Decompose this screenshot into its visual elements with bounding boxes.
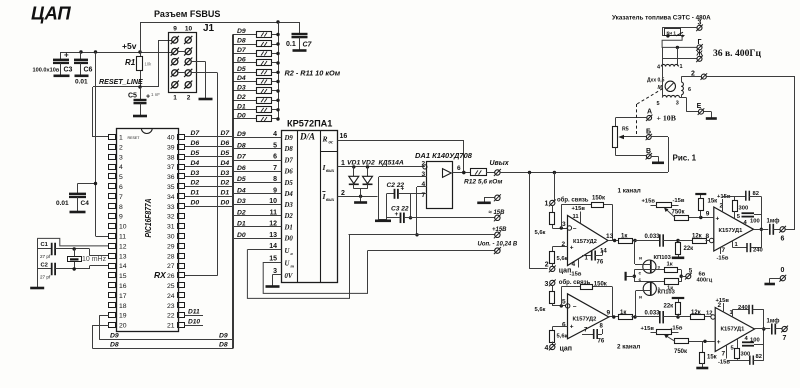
svg-text:−: −	[573, 226, 577, 233]
svg-text:100: 100	[750, 338, 760, 344]
svg-text:+: +	[146, 94, 150, 101]
wire Б to Uвых line	[651, 137, 668, 173]
wire Uref line	[368, 250, 495, 252]
label pin 10	[185, 26, 193, 33]
label КД514А	[379, 160, 404, 167]
svg-text:11: 11	[270, 209, 278, 216]
bus spine	[232, 35, 234, 349]
svg-text:D3: D3	[237, 198, 246, 205]
ch2b output rail	[755, 310, 771, 361]
wire Ж line	[662, 47, 697, 64]
wire net D11 stub	[184, 308, 203, 315]
svg-text:D9: D9	[284, 135, 294, 142]
svg-text:К157УД1: К157УД1	[719, 228, 744, 234]
ground 15к ch1 up	[695, 194, 717, 205]
ch1b cap 82	[746, 191, 762, 201]
svg-text:12: 12	[119, 243, 127, 250]
svg-text:9: 9	[119, 214, 123, 221]
svg-text:29: 29	[167, 243, 175, 250]
PIC pin 20 box	[109, 323, 127, 330]
wire coil2 to terminal2	[681, 76, 701, 78]
resistor 1к ch1	[619, 234, 637, 244]
feedback ch2	[561, 287, 612, 318]
wire J1 row3 to ground	[191, 62, 205, 99]
svg-text:7: 7	[783, 335, 787, 342]
svg-text:D6: D6	[237, 165, 246, 172]
terminal 4 цап	[545, 344, 573, 353]
terminal Uвых	[490, 160, 510, 176]
svg-text:13: 13	[269, 232, 277, 239]
wire А to R5	[616, 118, 647, 127]
svg-text:R1: R1	[125, 58, 136, 67]
svg-text:C7: C7	[303, 42, 313, 49]
svg-text:27 pf: 27 pf	[40, 275, 51, 280]
capacitor C5	[128, 87, 160, 116]
PIC pin 27 box	[167, 263, 185, 270]
svg-text:+: +	[64, 51, 69, 60]
resistor pull-up D5	[233, 66, 280, 76]
svg-text:D1: D1	[191, 190, 200, 197]
svg-text:6: 6	[119, 184, 123, 191]
svg-text:Кн 1: Кн 1	[667, 31, 677, 36]
svg-text:D5: D5	[237, 66, 246, 73]
label RX	[154, 270, 167, 280]
ground terminal 0	[764, 283, 775, 286]
resistor 22к ch1	[676, 239, 694, 257]
wire source join	[627, 270, 637, 282]
svg-text:21: 21	[167, 323, 175, 330]
PIC pin 1 box	[109, 135, 141, 142]
svg-text:400гц: 400гц	[697, 278, 713, 284]
resistor 750к ch2	[674, 339, 689, 356]
ch1b pin7 -15в	[717, 247, 729, 262]
wire coil interconnect	[662, 65, 686, 98]
svg-text:-15в: -15в	[671, 326, 683, 332]
wire RESET to PIC pin 1	[93, 87, 110, 137]
svg-text:1к: 1к	[621, 234, 627, 240]
wire net D10 stub	[184, 318, 203, 325]
label 36 в. 400Гц	[713, 48, 761, 59]
resistor pull-up D2	[233, 94, 280, 104]
capacitor C3	[33, 51, 73, 76]
wire PIC pin12 VSS to ground	[37, 238, 109, 287]
svg-text:26: 26	[167, 273, 175, 280]
svg-text:+: +	[716, 215, 720, 222]
svg-text:R: R	[322, 135, 328, 144]
resistor 5,6к ch1 noninv	[550, 247, 568, 266]
trimmer ch2	[641, 326, 683, 335]
svg-text:D6: D6	[191, 140, 200, 147]
ch2b cap 100	[742, 336, 764, 346]
wire Ua to +15V	[247, 235, 349, 299]
svg-text:39: 39	[167, 144, 175, 151]
terminal 3 gauge	[696, 20, 703, 32]
svg-text:+: +	[395, 211, 399, 218]
wire PIC D5 to bus	[184, 150, 233, 157]
resistor pull-up D9	[233, 28, 280, 38]
svg-text:RX: RX	[154, 270, 167, 280]
svg-text:R5: R5	[622, 127, 629, 133]
ch2b pin7 -15в	[718, 345, 730, 366]
svg-text:7: 7	[722, 247, 726, 254]
svg-text:D2: D2	[191, 180, 200, 187]
svg-text:D1: D1	[237, 221, 246, 228]
svg-text:D5: D5	[237, 176, 246, 183]
diode VD2	[362, 160, 375, 189]
svg-text:D4: D4	[191, 160, 200, 167]
svg-text:+15В: +15В	[492, 227, 507, 233]
svg-text:3: 3	[273, 268, 277, 275]
PIC pin 37 box	[167, 164, 185, 171]
svg-text:1мф: 1мф	[767, 218, 780, 225]
ground C3	[54, 75, 70, 78]
svg-text:10: 10	[119, 224, 127, 231]
J1 pin circle L1	[171, 36, 179, 44]
PIC pin 10 box	[109, 224, 127, 231]
wire C2 rail to pin 14	[90, 266, 110, 270]
svg-text:+15в: +15в	[642, 199, 656, 205]
wire net D8 bottom bus	[93, 325, 234, 348]
PIC pin 13 box	[109, 253, 127, 260]
PIC pin 9 box	[109, 214, 124, 221]
J1 pin circle R1	[184, 36, 192, 44]
svg-text:5,6к: 5,6к	[535, 307, 546, 313]
svg-text:16: 16	[119, 283, 127, 290]
svg-text:4: 4	[572, 261, 576, 268]
svg-text:PIC16F877A: PIC16F877A	[144, 198, 153, 237]
coil primary	[657, 64, 683, 71]
svg-text:0.1: 0.1	[286, 41, 296, 48]
svg-text:D9: D9	[237, 28, 246, 35]
terminal 6	[779, 226, 795, 243]
svg-text:0: 0	[781, 267, 785, 274]
svg-text:1к: 1к	[620, 310, 626, 316]
svg-text:В: В	[646, 148, 651, 155]
svg-text:7: 7	[273, 165, 277, 172]
potentiometer R5	[613, 127, 629, 156]
diode VD1	[347, 160, 360, 189]
DA1 pin2 input	[422, 161, 428, 169]
svg-text:9: 9	[173, 26, 177, 33]
PIC pin 26 box	[167, 273, 185, 281]
PIC pin 8 box	[109, 204, 124, 211]
ch2b cap 82	[750, 354, 764, 365]
svg-text:D1: D1	[284, 224, 293, 231]
svg-text:и: и	[639, 257, 642, 262]
svg-text:+: +	[570, 324, 574, 331]
svg-text:D5: D5	[221, 150, 230, 157]
svg-text:9: 9	[607, 310, 611, 317]
ground В	[652, 162, 664, 165]
capacitor C4	[56, 182, 97, 212]
wire цап feed ch1	[530, 173, 548, 269]
svg-text:J1: J1	[203, 23, 215, 34]
PIC pin 38 box	[167, 154, 185, 161]
ch2 correction cap 76	[582, 324, 605, 345]
ch1 pin11 +15в	[572, 206, 586, 223]
ground J1	[199, 98, 213, 101]
svg-text:2: 2	[545, 261, 549, 268]
svg-text:D8: D8	[219, 341, 228, 348]
svg-text:4: 4	[422, 181, 426, 188]
ch2 pin6	[552, 322, 574, 331]
capacitor C6	[74, 52, 93, 86]
svg-text:8: 8	[706, 233, 710, 240]
feedback ch1	[561, 205, 612, 241]
terminal В	[646, 148, 652, 160]
IC DA КР572ПА1 body	[282, 131, 338, 283]
connector J1 body	[169, 23, 215, 93]
terminal +15В	[492, 227, 507, 238]
terminal А	[646, 109, 652, 122]
DAC pin 14 Ua	[247, 243, 293, 256]
svg-text:D7: D7	[237, 47, 247, 54]
wire DAC pin1 Iout	[338, 160, 425, 169]
wire PIC D7 to bus	[184, 130, 233, 137]
trimmer wiper ch2	[664, 334, 675, 341]
J1 pin circle R4	[184, 69, 192, 77]
wire DAC input D0	[233, 232, 293, 243]
svg-text:240: 240	[753, 248, 763, 254]
PIC pin 33 box	[167, 204, 185, 211]
wire C2 ground stem	[379, 194, 387, 220]
resistor 12к ch2	[678, 310, 711, 320]
op-amp input circle ch1 inv	[567, 226, 577, 233]
svg-text:0V: 0V	[285, 273, 293, 280]
svg-text:C3: C3	[64, 67, 73, 74]
svg-text:1: 1	[119, 135, 123, 142]
wire gauge terminal2 to ch1 output	[707, 77, 796, 230]
wire +5v rail	[61, 50, 172, 53]
op-amp К157УД1 ch2	[715, 308, 754, 352]
capacitor C2 22	[387, 182, 411, 199]
svg-text:76: 76	[598, 339, 605, 345]
PIC pin 11 box	[109, 234, 127, 241]
svg-text:32: 32	[167, 214, 175, 221]
wire DAC input D6	[233, 165, 293, 176]
svg-text:-15в: -15в	[717, 256, 729, 262]
svg-text:4: 4	[273, 131, 277, 138]
svg-text:34: 34	[167, 194, 175, 201]
svg-text:Разъем FSBUS: Разъем FSBUS	[154, 9, 220, 19]
svg-text:0.01: 0.01	[56, 200, 69, 207]
svg-text:10: 10	[269, 198, 277, 205]
svg-text:D6: D6	[221, 140, 230, 147]
svg-text:27 pf: 27 pf	[40, 254, 51, 259]
svg-text:D/A: D/A	[299, 132, 315, 142]
svg-text:20: 20	[119, 323, 127, 330]
ch2b noninv wire	[689, 339, 721, 346]
ground C2 C3 pin3	[375, 220, 391, 223]
svg-text:D1: D1	[237, 103, 246, 110]
svg-text:RESET: RESET	[128, 136, 141, 140]
DA1 pin3 input	[379, 171, 428, 220]
PIC pin 7 box	[109, 194, 124, 201]
resistor 15к ch2	[700, 341, 717, 367]
mech coupling dashed	[637, 88, 665, 135]
svg-text:+15в: +15в	[716, 298, 730, 304]
svg-text:25: 25	[167, 283, 175, 290]
svg-text:15к: 15к	[708, 199, 718, 205]
wire Uвых to channels	[500, 171, 668, 174]
svg-text:D7: D7	[221, 130, 231, 137]
svg-text:6в: 6в	[699, 271, 706, 277]
PIC pin 34 box	[167, 194, 185, 201]
svg-text:1 канал: 1 канал	[618, 188, 641, 195]
DAC pin 15 Um	[263, 256, 294, 269]
svg-text:вых: вых	[326, 169, 335, 174]
capacitor C7	[286, 22, 313, 50]
svg-text:D3: D3	[191, 170, 200, 177]
svg-text:1: 1	[545, 201, 549, 208]
svg-text:82: 82	[753, 191, 759, 197]
svg-text:D2: D2	[237, 94, 246, 101]
svg-text:6: 6	[457, 165, 461, 172]
resistor 150к ch1	[592, 196, 606, 208]
svg-text:D2: D2	[221, 180, 230, 187]
svg-text:D11: D11	[188, 308, 200, 315]
svg-text:+15в: +15в	[572, 206, 586, 212]
terminal ground out	[484, 194, 501, 202]
svg-text:36: 36	[167, 174, 175, 181]
terminal 3 ch2	[545, 280, 556, 289]
svg-text:C4: C4	[81, 200, 90, 207]
wire DAC input D4	[233, 187, 293, 198]
svg-text:Указатель топлива СЭТС - 480А: Указатель топлива СЭТС - 480А	[612, 15, 711, 22]
label обр. связь ch1	[557, 197, 589, 204]
svg-text:24: 24	[167, 293, 175, 300]
wire DAC pin2	[338, 190, 378, 198]
svg-text:22к: 22к	[684, 246, 694, 252]
svg-text:31: 31	[167, 224, 175, 231]
svg-text:5,6к: 5,6к	[535, 230, 546, 236]
motor indicator	[647, 78, 676, 92]
svg-text:3: 3	[545, 281, 549, 288]
PIC pin 36 box	[167, 174, 185, 182]
svg-text:C5: C5	[128, 93, 137, 100]
resistor pull-up D4	[233, 75, 280, 85]
trimmer ch1	[642, 198, 685, 208]
wire DAC input D9	[233, 131, 293, 142]
svg-text:5: 5	[273, 142, 277, 149]
wire DAC input D5	[233, 176, 293, 187]
svg-text:5: 5	[689, 267, 693, 274]
resistor 1к ch2 drain	[665, 279, 682, 292]
svg-text:100: 100	[750, 219, 760, 225]
coil secondary right	[681, 82, 691, 95]
terminal 5	[685, 267, 713, 283]
resistor 15к ch1	[699, 195, 704, 218]
capacitor C1	[37, 242, 89, 259]
PIC pin 32 box	[167, 214, 185, 221]
PIC pin 17 box	[109, 293, 127, 300]
svg-text:5,6к: 5,6к	[557, 334, 568, 340]
ch1b cap 240	[733, 241, 763, 254]
svg-text:VD1: VD1	[347, 160, 360, 167]
svg-text:1к: 1к	[667, 262, 673, 268]
svg-text:2: 2	[341, 190, 345, 197]
J1 pin circle L5	[171, 81, 179, 89]
svg-text:+: +	[717, 339, 721, 346]
resistor 22к ch2	[664, 299, 681, 319]
svg-text:D0: D0	[237, 113, 246, 120]
wire to terminal 5	[680, 270, 686, 282]
wire PIC D3 to bus	[184, 170, 233, 177]
IC U1 PIC16F877A body	[117, 128, 179, 332]
svg-text:8: 8	[273, 176, 277, 183]
svg-text:М: М	[658, 85, 663, 91]
svg-text:15: 15	[119, 273, 127, 280]
svg-text:22: 22	[167, 313, 175, 320]
svg-text:D0: D0	[284, 236, 294, 243]
svg-text:D8: D8	[237, 142, 246, 149]
PIC pin 29 box	[167, 243, 185, 250]
ch1b output rail	[754, 197, 769, 248]
DAC pin 3 0V	[273, 268, 293, 286]
PIC pin 16 box	[109, 283, 127, 291]
ground C5	[133, 115, 147, 118]
resistor pull-up D7	[233, 47, 280, 57]
svg-text:вых: вых	[326, 198, 335, 203]
label RESET_LINE	[99, 78, 143, 86]
J1 pin circle R3	[184, 58, 192, 66]
trimmer wiper ch1	[664, 208, 675, 218]
wire +5v top rail	[141, 20, 300, 52]
svg-text:D7: D7	[284, 157, 294, 164]
svg-text:цап: цап	[560, 346, 573, 353]
resistor R1	[125, 52, 152, 87]
wire Um to Uref	[263, 251, 367, 294]
svg-text:12: 12	[706, 311, 712, 317]
svg-text:D4: D4	[221, 160, 230, 167]
ch2 output pin9	[607, 310, 619, 319]
svg-text:12к: 12к	[691, 310, 701, 316]
svg-text:13: 13	[119, 253, 127, 260]
svg-text:13: 13	[606, 233, 614, 240]
capacitor 1мф ch2	[767, 318, 782, 335]
op-amp К157УД1 ch1	[714, 207, 754, 251]
svg-text:D5: D5	[191, 150, 200, 157]
label pin3	[562, 221, 566, 228]
label pin12 ch2b	[706, 311, 712, 317]
PIC pin 24 box	[167, 293, 185, 300]
terminal -15В	[489, 210, 506, 221]
terminal 7	[781, 326, 788, 342]
svg-text:3: 3	[119, 154, 123, 161]
resistor pull-up D0	[233, 113, 280, 122]
wire RESET_LINE	[93, 40, 172, 89]
svg-text:150к: 150к	[592, 196, 605, 202]
J1 pin circle L3	[171, 58, 179, 66]
svg-text:30: 30	[167, 234, 175, 241]
svg-text:D4: D4	[237, 75, 246, 82]
wire E line	[686, 98, 698, 112]
svg-text:Г: Г	[698, 39, 702, 46]
svg-text:16: 16	[340, 133, 348, 140]
svg-text:6: 6	[562, 322, 566, 329]
svg-text:2 канал: 2 канал	[617, 344, 640, 351]
svg-text:2: 2	[119, 144, 123, 151]
label pin 2	[187, 95, 191, 102]
wire ch1 gate	[634, 241, 636, 265]
DA1 pin4	[415, 181, 427, 237]
svg-text:5: 5	[562, 299, 566, 306]
wire term1 feed	[554, 173, 556, 201]
svg-text:82: 82	[756, 354, 762, 360]
terminal Б	[646, 129, 652, 141]
svg-text:7: 7	[422, 192, 426, 199]
label обр. связь ch2	[559, 279, 591, 286]
